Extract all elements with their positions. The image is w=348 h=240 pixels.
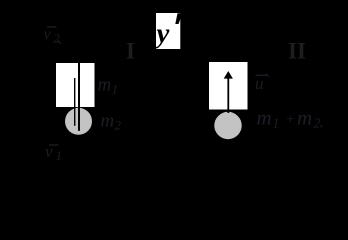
svg-text:m: m bbox=[98, 75, 112, 96]
svg-text:y: y bbox=[154, 18, 170, 50]
svg-text:2: 2 bbox=[54, 32, 60, 46]
label m1 (right of block) bbox=[98, 75, 119, 97]
svg-text:u: u bbox=[255, 74, 264, 93]
label v1 (bottom left) bbox=[45, 142, 62, 163]
label m2 (right of ball) bbox=[101, 111, 122, 133]
ball m2 (left gray circle) bbox=[65, 108, 92, 135]
svg-text:1: 1 bbox=[56, 148, 63, 163]
block m1 (left white rectangle) bbox=[56, 63, 95, 107]
svg-text:m: m bbox=[257, 106, 272, 130]
svg-text:1: 1 bbox=[112, 82, 119, 97]
svg-text:I: I bbox=[288, 38, 297, 63]
label m1 + m2 (right of combined ball) bbox=[257, 106, 324, 131]
svg-text:I: I bbox=[126, 38, 135, 63]
svg-text:v: v bbox=[44, 26, 52, 43]
label u (right of right block) bbox=[255, 74, 269, 93]
block m1+m2 (right white rectangle) bbox=[209, 62, 248, 110]
axis label box y' bbox=[154, 13, 183, 50]
label v2 (initial velocity of ball, top left) bbox=[44, 26, 62, 46]
svg-text:,: , bbox=[320, 116, 324, 131]
svg-text:+: + bbox=[286, 112, 294, 128]
arrow u (velocity of combined mass, shaft) bbox=[227, 77, 229, 113]
arrow u (head) bbox=[224, 71, 233, 79]
svg-text:I: I bbox=[297, 38, 306, 63]
ball (right gray circle, combined mass) bbox=[214, 112, 241, 139]
svg-text:m: m bbox=[297, 106, 312, 130]
svg-text:m: m bbox=[101, 111, 115, 132]
svg-text:1: 1 bbox=[273, 116, 280, 131]
wire: long vertical line through block into ball bbox=[78, 63, 80, 131]
svg-text:2: 2 bbox=[115, 118, 122, 133]
wire: short vertical line beside it bbox=[74, 78, 75, 126]
